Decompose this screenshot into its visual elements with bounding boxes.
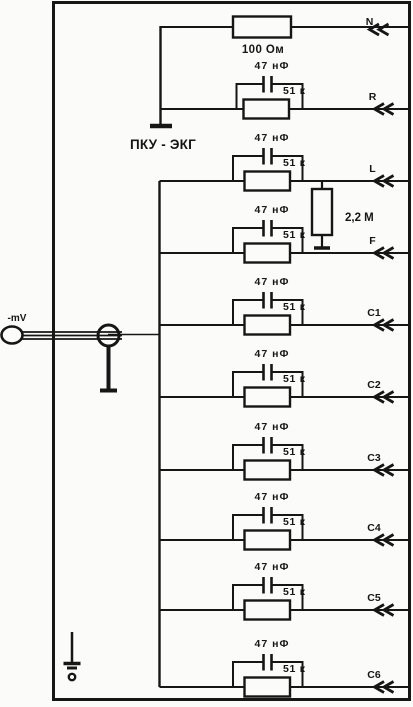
wire C2 cap loop top-right lead (273, 371, 304, 373)
wire F cap loop top-left lead (232, 227, 263, 229)
wire 2,2 М bottom lead (321, 235, 323, 248)
svg-text:ПКУ - ЭКГ: ПКУ - ЭКГ (130, 137, 196, 152)
wire C1 cap loop right riser (302, 300, 304, 325)
svg-text:51 к: 51 к (283, 157, 306, 169)
wire C5 cap loop left riser (232, 585, 234, 610)
resistor 51 к box (C6 section) (245, 678, 291, 697)
terminal double arrow C4 (375, 535, 385, 546)
svg-text:47 нФ: 47 нФ (255, 561, 290, 573)
svg-text:51 к: 51 к (283, 229, 306, 241)
ground symbol circle o (69, 674, 75, 680)
resistor 51 к box (C1 section) (245, 316, 291, 335)
svg-text:C5: C5 (367, 592, 381, 604)
svg-text:47 нФ: 47 нФ (255, 638, 290, 650)
terminal double arrow C3 (375, 465, 385, 476)
wire top bus vertical (159, 26, 161, 126)
cable wire bottom strand (22, 338, 122, 340)
wire F cap loop top-right lead (273, 227, 304, 229)
wire C2 cap loop left riser (232, 372, 234, 397)
wire C1 branch (160, 324, 409, 326)
wire C4 branch (160, 539, 409, 541)
terminal double arrow C2 (375, 392, 385, 403)
wire C6 branch (160, 686, 409, 688)
terminal double arrow L (375, 176, 385, 187)
terminal double arrow C6 (375, 682, 385, 693)
svg-text:C2: C2 (367, 379, 381, 391)
input electrode ellipse (2, 327, 23, 344)
resistor 51 к box (L section) (245, 172, 291, 191)
resistor 51 к box (C5 section) (245, 601, 291, 620)
wire L cap loop left riser (232, 156, 234, 181)
svg-text:C6: C6 (367, 669, 381, 681)
svg-text:C4: C4 (367, 522, 381, 534)
svg-text:2,2 М: 2,2 М (345, 212, 374, 224)
capacitor 47 нФ plates (L section) (262, 148, 265, 165)
resistor 51 к box (C4 section) (245, 531, 291, 550)
wire C3 cap loop right riser (302, 445, 304, 470)
wire C6 cap loop top-left lead (232, 661, 263, 663)
svg-text:51 к: 51 к (283, 373, 306, 385)
ground symbol bar 1 (64, 662, 81, 666)
resistor R 100 Ом box (233, 17, 291, 38)
wire L cap loop top-left lead (232, 155, 263, 157)
svg-text:F: F (369, 235, 376, 247)
wire R cap loop top-left lead (236, 83, 263, 85)
wire L branch (160, 180, 409, 182)
resistor 51 к box (C3 section) (245, 461, 291, 480)
svg-text:47 нФ: 47 нФ (255, 421, 290, 433)
2,2 М bottom termination bar (314, 246, 330, 250)
wire main bus vertical (158, 181, 160, 687)
wire C3 branch (160, 469, 409, 471)
wire C4 cap loop right riser (302, 515, 304, 540)
wire C3 cap loop top-right lead (273, 444, 304, 446)
capacitor 47 нФ plates (C5 section) (262, 577, 265, 594)
svg-text:47 нФ: 47 нФ (255, 132, 290, 144)
wire C6 cap loop top-right lead (273, 661, 304, 663)
wire C2 cap loop right riser (302, 372, 304, 397)
svg-text:47 нФ: 47 нФ (255, 276, 290, 288)
wire L cap loop right riser (302, 156, 304, 181)
svg-text:51 к: 51 к (283, 663, 306, 675)
wire C3 cap loop left riser (232, 445, 234, 470)
svg-text:-mV: -mV (8, 313, 27, 324)
ground symbol stem (71, 632, 74, 663)
capacitor 47 нФ plates (C4 section) (262, 507, 265, 524)
wire C1 cap loop top-left lead (232, 299, 263, 301)
wire C4 cap loop top-left lead (232, 514, 263, 516)
resistor 51 к box (R section) (244, 100, 290, 119)
capacitor 47 нФ plates (C6 section) (262, 654, 265, 671)
wire C6 cap loop right riser (302, 662, 304, 687)
svg-text:51 к: 51 к (283, 516, 306, 528)
svg-text:N: N (366, 16, 374, 28)
wire F cap loop left riser (232, 228, 234, 253)
wire C6 cap loop left riser (232, 662, 234, 687)
capacitor 47 нФ plates (C2 section) (262, 364, 265, 381)
svg-text:51 к: 51 к (283, 301, 306, 313)
wire C5 cap loop top-left lead (232, 584, 263, 586)
wire C2 branch (160, 396, 409, 398)
resistor 51 к box (F section) (245, 244, 291, 263)
wire C1 cap loop top-right lead (273, 299, 304, 301)
svg-text:51 к: 51 к (283, 586, 306, 598)
svg-text:100 Ом: 100 Ом (242, 44, 284, 56)
svg-text:L: L (369, 163, 376, 175)
connector circle (98, 325, 119, 346)
wire F cap loop right riser (302, 228, 304, 253)
resistor 2,2 М box (312, 189, 332, 235)
wire C5 cap loop top-right lead (273, 584, 304, 586)
wire R branch (161, 108, 409, 110)
svg-text:51 к: 51 к (283, 85, 306, 97)
ground symbol bar 2 (67, 667, 77, 670)
svg-text:C1: C1 (367, 307, 381, 319)
svg-text:47 нФ: 47 нФ (255, 348, 290, 360)
terminal double arrow C5 (375, 605, 385, 616)
wire C3 cap loop top-left lead (232, 444, 263, 446)
capacitor 47 нФ plates (F section) (262, 220, 265, 237)
cable wire top strand (22, 331, 122, 333)
resistor 51 к box (C2 section) (245, 388, 291, 407)
wire from connector to bus (108, 334, 161, 336)
capacitor 47 нФ plates (C3 section) (262, 437, 265, 454)
terminal double arrow R (375, 104, 385, 115)
wire C1 cap loop left riser (232, 300, 234, 325)
connector ground stem wire (107, 346, 111, 390)
wire L cap loop top-right lead (273, 155, 304, 157)
wire N branch (160, 26, 409, 28)
wire C4 cap loop top-right lead (273, 514, 304, 516)
capacitor 47 нФ plates (R section) (262, 76, 265, 93)
wire R cap loop right riser (302, 84, 304, 109)
wire C4 cap loop left riser (232, 515, 234, 540)
capacitor 47 нФ plates (C1 section) (262, 292, 265, 309)
terminal double arrow F (375, 248, 385, 259)
wire C5 cap loop right riser (302, 585, 304, 610)
connector ground bar (100, 389, 117, 393)
terminal double arrow C1 (375, 320, 385, 331)
wire F branch (160, 252, 409, 254)
wire R cap loop top-right lead (273, 83, 304, 85)
wire C2 cap loop top-left lead (232, 371, 263, 373)
svg-text:47 нФ: 47 нФ (255, 491, 290, 503)
wire C5 branch (160, 609, 409, 611)
wire R cap loop left riser (236, 84, 238, 109)
svg-text:C3: C3 (367, 452, 381, 464)
svg-text:47 нФ: 47 нФ (255, 204, 290, 216)
svg-text:R: R (369, 91, 377, 103)
ground bar of top bus (150, 124, 172, 129)
wire 2,2 М top lead (321, 181, 323, 189)
svg-text:51 к: 51 к (283, 446, 306, 458)
cable wire middle strand (22, 335, 122, 337)
svg-text:47 нФ: 47 нФ (255, 60, 290, 72)
terminal double arrow N (370, 24, 380, 35)
